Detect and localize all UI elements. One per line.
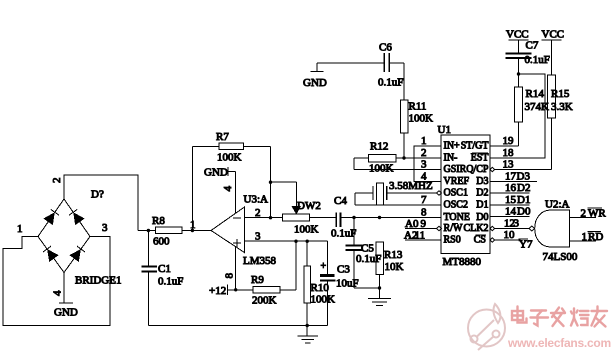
svg-text:D2: D2 xyxy=(476,188,488,199)
svg-text:GND: GND xyxy=(204,167,228,179)
capacitor C5 xyxy=(346,218,382,289)
wire: R7 left lead down to node 1 xyxy=(192,147,194,231)
svg-text:D1: D1 xyxy=(476,200,488,211)
overline on EST xyxy=(472,152,488,154)
ground (bottom rail) xyxy=(298,326,318,343)
bridge rectifier BRIDGE1 diamond xyxy=(38,199,90,273)
resistor R15 xyxy=(547,75,572,170)
svg-text:14: 14 xyxy=(505,206,517,218)
svg-text:3: 3 xyxy=(102,222,108,234)
svg-text:19: 19 xyxy=(503,135,515,147)
wire: bridge pin2 up and right to R8 input xyxy=(64,175,138,231)
svg-text:100K: 100K xyxy=(311,294,336,306)
svg-text:EST: EST xyxy=(471,153,489,164)
svg-text:R13: R13 xyxy=(384,249,403,261)
svg-text:10: 10 xyxy=(504,229,516,241)
svg-text:D?: D? xyxy=(91,189,104,201)
wire: pin 17 data D3 xyxy=(490,171,537,183)
pin 13 diamond xyxy=(490,167,495,171)
wire: R7 right lead down to pin2 line xyxy=(270,147,272,218)
node: R10/pin3 junction xyxy=(306,240,309,243)
svg-text:0.1uF: 0.1uF xyxy=(525,54,550,66)
svg-text:0.1uF: 0.1uF xyxy=(356,253,381,265)
svg-text:VCC: VCC xyxy=(542,29,565,41)
svg-text:D3: D3 xyxy=(476,176,488,187)
svg-text:10uF: 10uF xyxy=(336,278,359,290)
node: bottom rail / R10 ground junction xyxy=(306,324,309,327)
pin 10 diamond xyxy=(490,238,495,242)
crystal Y1 3.58MHZ xyxy=(355,180,437,205)
svg-text:GND: GND xyxy=(303,77,327,89)
svg-text:IN-: IN- xyxy=(444,153,458,164)
op-amp pin 3 wire (non-inverting input) xyxy=(245,231,328,243)
watermark text dian-zi-fa-shao-you (drawn strokes) xyxy=(512,307,607,327)
wire: junction to pin 18 (EST) xyxy=(490,74,545,159)
svg-text:TONE: TONE xyxy=(444,212,470,223)
svg-text:17: 17 xyxy=(505,171,517,183)
svg-text:3: 3 xyxy=(421,159,427,171)
wire: pin 13 (IRQ/CP) to R15 xyxy=(495,159,552,171)
op-amp U3:A LM358 xyxy=(211,194,277,268)
svg-text:D2: D2 xyxy=(517,182,530,194)
svg-text:U1: U1 xyxy=(438,124,451,136)
svg-text:2: 2 xyxy=(255,207,261,219)
wire: pin 14 data D0 xyxy=(490,206,531,218)
svg-text:R8: R8 xyxy=(152,215,165,227)
svg-text:3: 3 xyxy=(514,218,520,230)
svg-text:1: 1 xyxy=(17,223,23,235)
svg-text:2: 2 xyxy=(51,178,63,184)
svg-text:D0: D0 xyxy=(517,206,531,218)
svg-text:3.58MHZ: 3.58MHZ xyxy=(389,180,433,192)
node: C5 tap on TONE line xyxy=(352,216,355,219)
svg-text:D0: D0 xyxy=(476,212,488,223)
power VCC terminal (left) xyxy=(506,29,529,41)
svg-text:U3:A: U3:A xyxy=(244,194,269,206)
svg-text:IN+: IN+ xyxy=(444,141,461,152)
node: R9/pin3 junction xyxy=(294,240,297,243)
node: R13 tap on TONE line xyxy=(378,216,381,219)
svg-text:BRIDGE1: BRIDGE1 xyxy=(75,275,121,287)
svg-text:RD: RD xyxy=(588,231,603,243)
svg-text:WR: WR xyxy=(588,208,606,220)
svg-text:74LS00: 74LS00 xyxy=(543,251,578,263)
svg-text:10K: 10K xyxy=(385,261,404,273)
wire: RS0 row pin 11 with net label A2 xyxy=(404,230,441,242)
wire: pin 12 to gate output pin 3 xyxy=(495,218,530,230)
wire: R/W row pin 9 with net label A0 xyxy=(405,218,437,230)
power VCC terminal (right) xyxy=(542,29,565,76)
node: R11 / IN- junction xyxy=(402,156,405,159)
svg-text:4: 4 xyxy=(222,186,234,192)
svg-text:D1: D1 xyxy=(517,194,530,206)
svg-text:R7: R7 xyxy=(216,131,229,143)
svg-text:GND: GND xyxy=(54,307,78,319)
node: wiper junction on feedback line xyxy=(269,181,272,184)
svg-text:GS: GS xyxy=(444,164,457,175)
svg-text:VREF: VREF xyxy=(444,176,470,187)
svg-text:100K: 100K xyxy=(369,163,394,175)
svg-text:13: 13 xyxy=(503,159,515,171)
svg-text:0.1uF: 0.1uF xyxy=(331,228,356,240)
watermark logo circle xyxy=(468,304,505,350)
svg-text:R11: R11 xyxy=(409,101,427,113)
diode D4 (bottom-right arm) xyxy=(70,246,85,261)
pin 9 diamond xyxy=(437,226,442,230)
svg-text:15: 15 xyxy=(505,194,517,206)
node: C5/R13 bottom junction xyxy=(378,286,381,289)
wire: pin 16 data D2 xyxy=(490,182,530,194)
wire: pin 15 data D1 xyxy=(490,194,530,206)
potentiometer DW2 xyxy=(271,182,337,235)
svg-text:Y7: Y7 xyxy=(519,239,533,251)
capacitor C1 xyxy=(142,231,184,326)
svg-text:4: 4 xyxy=(52,290,64,296)
svg-text:MT8880: MT8880 xyxy=(443,256,482,268)
node: pin2 junction xyxy=(269,216,272,219)
diode D3 (bottom-left arm) xyxy=(43,246,58,261)
ground (bridge) xyxy=(54,303,78,319)
svg-text:CLK2: CLK2 xyxy=(464,223,489,234)
svg-text:0.1uF: 0.1uF xyxy=(158,276,183,288)
ground (C5/R13) xyxy=(368,299,391,306)
wire: gate input pin 2 / WR xyxy=(570,208,607,220)
ground (C6) xyxy=(303,63,327,89)
svg-text:OSC1: OSC1 xyxy=(444,188,468,199)
node: R8 input / C1 junction xyxy=(147,229,150,232)
svg-text:R/W: R/W xyxy=(444,223,463,234)
svg-text:0.1uF: 0.1uF xyxy=(378,77,403,89)
svg-text:18: 18 xyxy=(503,147,515,159)
resistor R13 xyxy=(376,242,404,299)
svg-text:100K: 100K xyxy=(409,113,434,125)
power +12 terminal xyxy=(209,285,253,298)
svg-text:C3: C3 xyxy=(337,264,350,276)
capacitor C6 xyxy=(317,42,404,89)
wire: pin 10 (CS) with net label Y7 xyxy=(495,229,533,251)
svg-text:www.elecfans.com: www.elecfans.com xyxy=(507,336,611,350)
resistor R9 xyxy=(251,274,296,307)
svg-text:1: 1 xyxy=(582,231,588,243)
wire: IN+ to VREF strap xyxy=(414,146,441,182)
resistor R8 xyxy=(138,215,211,248)
NAND gate U2:A 74LS00 (mirrored) xyxy=(535,199,578,264)
ground (op-amp pin 4) xyxy=(204,167,236,179)
svg-text:R9: R9 xyxy=(251,274,264,286)
svg-text:100K: 100K xyxy=(294,224,319,236)
svg-text:IRQ/CP: IRQ/CP xyxy=(456,164,489,175)
wire: bridge pin1 left loop to bottom and to pin3 xyxy=(3,237,110,326)
wire: pin 19 (ST/GT) to R14 xyxy=(490,122,519,147)
svg-text:U2:A: U2:A xyxy=(545,199,570,211)
svg-text:200K: 200K xyxy=(252,295,277,307)
resistor R14 xyxy=(515,74,550,122)
node: output node 1 (R7 feedback tap) xyxy=(190,219,196,232)
U1 left column pin names xyxy=(444,141,470,246)
pin 5 diamond (OSC1) xyxy=(437,191,442,195)
svg-text:+12: +12 xyxy=(209,285,226,297)
svg-text:100K: 100K xyxy=(217,152,242,164)
svg-text:8: 8 xyxy=(421,207,427,219)
svg-text:R10: R10 xyxy=(311,282,330,294)
node: C7/R14 junction xyxy=(517,72,520,75)
svg-text:LM358: LM358 xyxy=(243,255,277,267)
wire: bridge pin4 to ground xyxy=(63,273,65,304)
svg-text:ST/GT: ST/GT xyxy=(461,141,489,152)
svg-text:R12: R12 xyxy=(370,141,388,153)
overline on CS xyxy=(476,234,487,236)
U1 right column pin names xyxy=(456,141,489,246)
svg-text:2: 2 xyxy=(581,208,587,220)
resistor R11 xyxy=(400,63,433,158)
svg-text:CS: CS xyxy=(474,235,486,246)
wire: OSC2 row pin 7 xyxy=(355,194,441,206)
svg-text:7: 7 xyxy=(421,194,427,206)
svg-text:+: + xyxy=(321,261,327,272)
resistor R7 (feedback) xyxy=(193,131,271,164)
gate output bubble (diamond) xyxy=(529,226,535,231)
capacitor C7 xyxy=(506,40,550,75)
op-amp pin 2 wire (inverting input) xyxy=(245,207,283,219)
pin 12 diamond xyxy=(490,226,495,230)
svg-text:OSC2: OSC2 xyxy=(444,200,468,211)
wire: R9 right lead up to pin3 line xyxy=(295,241,297,290)
node: +12 / pin8 junction xyxy=(234,288,237,291)
svg-text:600: 600 xyxy=(153,236,170,248)
capacitor C3 (electrolytic) xyxy=(320,241,359,325)
resistor R12 xyxy=(354,141,441,175)
wire: bottom analog ground rail xyxy=(148,325,327,327)
svg-text:A0: A0 xyxy=(405,218,419,230)
overline on W of R/W xyxy=(452,223,458,225)
svg-text:8: 8 xyxy=(224,273,236,279)
svg-text:D3: D3 xyxy=(517,171,531,183)
svg-text:RS0: RS0 xyxy=(444,235,461,246)
wire: GS row (pin 3) xyxy=(354,169,441,171)
wire: op-amp pin 8 down to +12 rail xyxy=(235,247,237,290)
svg-text:C6: C6 xyxy=(379,42,392,54)
svg-text:R14: R14 xyxy=(526,88,545,100)
wire: pin 4 to op-amp top xyxy=(235,172,237,214)
svg-text:DW2: DW2 xyxy=(297,200,321,212)
svg-text:2: 2 xyxy=(421,147,427,159)
svg-text:3: 3 xyxy=(255,231,261,243)
svg-text:C1: C1 xyxy=(158,263,171,275)
svg-text:16: 16 xyxy=(505,182,517,194)
diode D1 (top-left arm) xyxy=(44,209,59,224)
capacitor C4 xyxy=(331,195,441,240)
svg-text:9: 9 xyxy=(421,218,427,230)
svg-text:VCC: VCC xyxy=(506,29,529,41)
svg-text:3.3K: 3.3K xyxy=(551,101,573,113)
svg-text:C7: C7 xyxy=(526,40,539,52)
IC U1 MT8880 body xyxy=(438,124,491,268)
svg-text:R15: R15 xyxy=(551,88,570,100)
diode D2 (top-right arm) xyxy=(69,209,84,224)
svg-text:C4: C4 xyxy=(334,195,347,207)
svg-text:11: 11 xyxy=(415,230,426,242)
svg-text:1: 1 xyxy=(421,135,427,147)
resistor R10 xyxy=(304,241,335,325)
wire: gate input pin 1 / RD xyxy=(570,231,604,243)
